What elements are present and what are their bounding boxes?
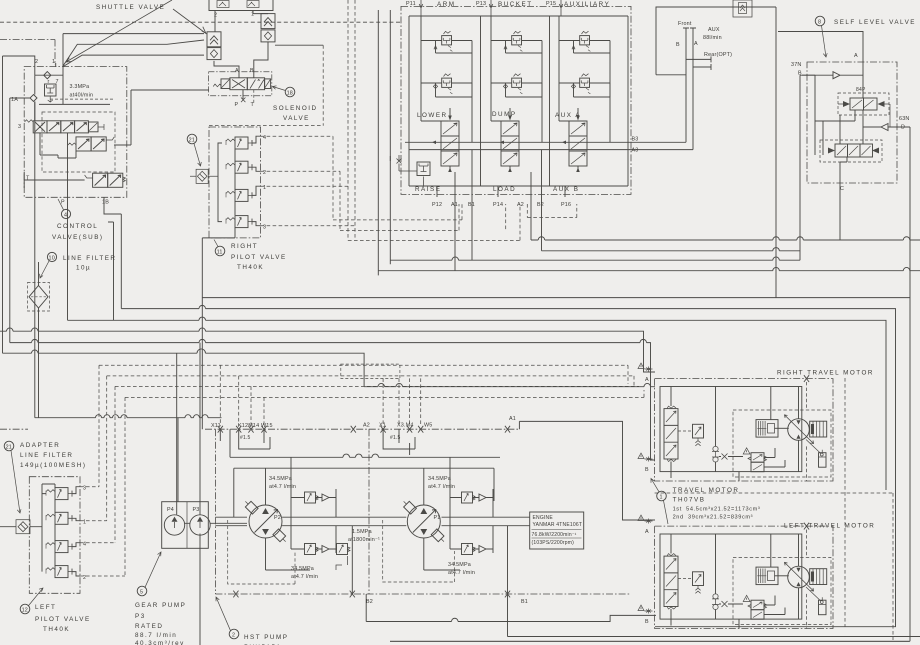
wire: bump on left feed (389, 156, 391, 161)
P2 case dashed outline (228, 520, 295, 584)
wire: supply to adapter (0, 526, 42, 528)
svg-text:B: B (250, 68, 254, 74)
svg-text:Front: Front (678, 21, 692, 27)
P15 supply stub (559, 0, 563, 16)
svg-text:RATED: RATED (135, 623, 163, 630)
svg-text:34.5MPa: 34.5MPa (448, 562, 471, 568)
svg-text:LINE FILTER: LINE FILTER (63, 255, 116, 262)
svg-text:63N: 63N (899, 116, 910, 122)
svg-text:X3.M4: X3.M4 (397, 423, 414, 429)
wire: gear pump outputs up (177, 343, 200, 645)
svg-text:X1: X1 (379, 423, 386, 429)
wire: C line down (840, 157, 847, 240)
svg-text:at4.7 l/min: at4.7 l/min (448, 570, 475, 576)
svg-text:2: 2 (214, 13, 217, 19)
wire: internal manifold (210, 143, 235, 238)
control valve(sub) enclosure (24, 67, 127, 198)
svg-text:P15: P15 (546, 1, 556, 7)
svg-text:76.8kW/2200min⁻¹: 76.8kW/2200min⁻¹ (532, 532, 577, 538)
wire: charge line with hops (230, 429, 500, 457)
wire: dash-dot stub top left (0, 40, 55, 66)
P1 lower check (450, 498, 493, 554)
wire: bus L1 (202, 297, 910, 299)
wire: T line (24, 172, 84, 188)
wire: port 4 line (252, 136, 261, 143)
wire: dashed under solenoid (209, 125, 323, 127)
wire: dashed rail 2 (340, 204, 506, 230)
wire: port 1 stub (55, 63, 57, 67)
wire: upper line to shuttle (63, 40, 204, 66)
AUX option box (656, 7, 776, 75)
wire: P down to bus (202, 238, 210, 429)
svg-text:P12: P12 (432, 202, 442, 208)
X mark A1 (505, 426, 510, 433)
wire: internal manifold (42, 484, 55, 572)
wire: vertical inside control valve (62, 34, 64, 105)
charge relief (337, 544, 351, 555)
wire: bottom dash-dot drain (215, 593, 630, 595)
circled 21 (187, 134, 201, 166)
wire: pilot rail 1 (99, 365, 628, 384)
wire: port3 line (252, 222, 261, 226)
wire: 1A vertical down (34, 75, 36, 121)
svg-text:VALVE(SUB): VALVE(SUB) (52, 234, 104, 241)
wire: top line to solenoid area (63, 33, 204, 35)
wire: solid manifold line (39, 103, 110, 105)
circled 12 (20, 588, 43, 614)
wire: valve interconnect (40, 133, 76, 158)
svg-text:2nd 39cm³x21.52=839cm³: 2nd 39cm³x21.52=839cm³ (673, 515, 754, 521)
svg-text:5: 5 (140, 589, 143, 595)
wire: B2 drop (351, 526, 353, 594)
wire: shuttle valve leader arrow (173, 9, 206, 34)
wire: B1 drain to right edge (508, 594, 920, 637)
circled 11 (214, 240, 225, 256)
circled 2 (216, 597, 239, 639)
svg-text:3: 3 (18, 124, 21, 130)
HST enclosure left edge (214, 429, 216, 594)
svg-text:LEFT: LEFT (35, 604, 56, 611)
svg-text:at4.7 l/min: at4.7 l/min (269, 484, 296, 490)
svg-text:37N: 37N (791, 62, 802, 68)
svg-text:at1800min⁻¹: at1800min⁻¹ (348, 537, 380, 543)
HST pump P2 (243, 499, 289, 545)
spool valve AUX (569, 108, 587, 172)
svg-text:LOAD: LOAD (493, 186, 516, 193)
circled 4 (58, 199, 71, 219)
svg-text:P1: P1 (434, 515, 441, 521)
reducing valve 2 (226, 161, 252, 173)
wire: B3 line through spools (405, 141, 686, 143)
P1 lower relief (462, 544, 476, 555)
wire: hooks under X group2 (383, 429, 415, 455)
svg-text:HST PUMP: HST PUMP (244, 634, 288, 641)
svg-text:4: 4 (64, 212, 67, 218)
svg-text:A: A (854, 53, 858, 59)
svg-text:r: r (48, 79, 50, 85)
HST pump P1 (401, 499, 447, 545)
wire: right inner vertical (889, 104, 891, 127)
svg-text:#1.5: #1.5 (240, 435, 251, 441)
svg-text:TRAVEL MOTOR: TRAVEL MOTOR (673, 487, 740, 494)
wire: P stub with x (242, 90, 244, 99)
wire: B2 feed down (541, 204, 543, 251)
svg-text:B2: B2 (366, 599, 373, 605)
P1 case dashed outline (383, 520, 455, 582)
wire: port 1 line (72, 518, 80, 520)
svg-text:A1: A1 (509, 416, 516, 422)
wire: diagonal from top edge (66, 0, 172, 62)
wire: P2 top riser (266, 468, 424, 505)
svg-text:AUX B: AUX B (553, 186, 579, 193)
wire: dashed pilot inside (50, 98, 115, 100)
pilot valve small mid (68, 137, 114, 151)
section divider 2 (549, 16, 551, 186)
bottom port stubs (437, 150, 565, 204)
wire: port 4 line (72, 543, 80, 547)
wire: left check to solenoid A (214, 61, 239, 78)
wire: pilot rail 2 (107, 376, 634, 386)
svg-text:1.5MPa: 1.5MPa (352, 529, 372, 535)
wire: bus B to SLV return (542, 248, 801, 251)
svg-text:LOWER: LOWER (417, 112, 448, 119)
svg-text:P: P (61, 200, 65, 206)
wire: D line with check (863, 124, 910, 131)
svg-text:10: 10 (49, 255, 55, 261)
wire: 1A line to left vertical (10, 97, 30, 99)
svg-text:B: B (645, 467, 649, 473)
svg-text:RIGHT: RIGHT (231, 243, 258, 250)
svg-text:ENGINE: ENGINE (533, 515, 554, 521)
svg-text:84P: 84P (856, 87, 866, 93)
svg-text:DUMP: DUMP (492, 111, 517, 118)
inner dashed box (42, 112, 115, 172)
P2 upper check (291, 489, 336, 517)
reducing valve 3 (46, 488, 72, 500)
svg-text:A2: A2 (363, 423, 370, 429)
diamond check right (261, 30, 275, 42)
wire: T stub (253, 90, 255, 103)
svg-text:TH07VB: TH07VB (673, 497, 706, 504)
upper spool valve (838, 93, 890, 115)
svg-text:D: D (901, 125, 905, 131)
svg-text:W5: W5 (424, 423, 433, 429)
spool valve ARM (441, 108, 459, 172)
wire: dashed port4 to valve block (261, 136, 333, 220)
svg-text:12: 12 (22, 607, 28, 613)
wire: dashed port2 (261, 171, 340, 230)
svg-text:A: A (235, 68, 239, 74)
svg-text:CONTROL: CONTROL (57, 223, 98, 230)
wire: gear pump shaft (185, 522, 247, 524)
port mark A left motor (638, 515, 653, 535)
wire: port1 line (252, 186, 261, 195)
line filter 10 (28, 283, 50, 312)
wire: bus L3 (68, 317, 887, 490)
svg-text:YANMAR 4TNE106T: YANMAR 4TNE106T (533, 522, 583, 528)
wire: drain column dashed (844, 378, 846, 627)
svg-text:10µ: 10µ (76, 265, 91, 272)
P11 supply stub (419, 0, 423, 16)
wire: bus C to SLV drop (390, 257, 800, 260)
wire: long bottom line (390, 640, 909, 642)
wire: A port (778, 32, 863, 99)
wire: port 2 line (252, 167, 261, 171)
reducing valve 2 (46, 566, 72, 578)
svg-text:A: A (645, 529, 649, 535)
wire: B vertical to bus (799, 75, 801, 260)
wire: B port line with check (800, 72, 863, 79)
svg-text:149µ(100MESH): 149µ(100MESH) (20, 462, 87, 469)
svg-text:TH40K: TH40K (43, 626, 70, 633)
wire: dashed rail 3 (348, 204, 520, 240)
wire: pump loop lower (215, 525, 406, 527)
svg-text:SHUTTLE VALVE: SHUTTLE VALVE (96, 4, 165, 11)
svg-text:B2: B2 (537, 202, 544, 208)
P1 upper check (450, 489, 493, 517)
spool valve BUCKET (501, 108, 519, 172)
svg-text:TH40K: TH40K (237, 264, 264, 271)
reducing valve 3 (226, 216, 252, 228)
svg-text:AUXILIARY: AUXILIARY (564, 1, 610, 8)
pressure reducing valve 7 (45, 84, 57, 102)
svg-text:34.5MPa: 34.5MPa (291, 566, 314, 572)
svg-text:SOLENOID: SOLENOID (273, 105, 318, 112)
svg-text:88l/min: 88l/min (703, 35, 722, 41)
right pilot valve enclosure (209, 127, 261, 238)
adapter diamond (16, 520, 30, 534)
svg-text:2: 2 (263, 170, 266, 176)
svg-text:A2: A2 (517, 202, 524, 208)
check diamond node (35, 67, 63, 79)
circled 21 adapter (4, 441, 21, 513)
port mark B left motor (638, 605, 653, 625)
circled 10 + LINE FILTER label (47, 252, 56, 261)
wire: bus L7 to travel motors (364, 383, 655, 386)
wire: pilot rail 3 (115, 385, 639, 387)
svg-text:7: 7 (56, 79, 59, 85)
wire: A1 line to left travel motor (519, 421, 655, 520)
svg-text:2: 2 (35, 59, 38, 65)
wire: dashed rail 1 (333, 204, 462, 220)
valve block inner frame (409, 16, 628, 186)
svg-text:PILOT VALVE: PILOT VALVE (35, 616, 91, 623)
lower pilot valve T (26, 173, 125, 187)
wire: left vertical 2 to bus L5 (9, 98, 11, 343)
wire: bus A to right edge (531, 237, 920, 240)
wire: charge header (234, 468, 494, 517)
wire: P2 bottom (266, 538, 461, 570)
svg-text:T: T (26, 176, 30, 182)
P1 upper relief (462, 492, 476, 503)
svg-text:1: 1 (660, 494, 663, 500)
main control spool valve 3 (18, 120, 104, 133)
P13 supply stub (489, 0, 493, 16)
reducing valve 4 (46, 541, 72, 553)
wire: bus L5 (10, 339, 655, 460)
X marks group 2 (351, 426, 356, 433)
circled 18 (273, 86, 295, 97)
wire: B line (683, 28, 689, 142)
gear pump P3 (190, 515, 210, 535)
svg-text:A: A (694, 41, 698, 47)
wire: bus L6 (3, 349, 365, 387)
wire: hooks under X group1 (220, 429, 270, 449)
check valve right (261, 14, 275, 29)
svg-text:GEAR PUMP: GEAR PUMP (135, 602, 186, 609)
wire: bus L4 (0, 328, 655, 372)
circled 1 (651, 479, 668, 525)
svg-text:1B: 1B (102, 200, 109, 206)
wire: X1 X3 drops (383, 378, 421, 426)
wire: port 2 line (72, 572, 80, 576)
svg-text:34.5MPa: 34.5MPa (428, 476, 451, 482)
svg-text:P3: P3 (135, 613, 146, 620)
wire: right check to solenoid B (254, 42, 268, 78)
wire: left vertical to bus L6 (2, 56, 4, 353)
gear pump P4 (164, 515, 184, 535)
svg-text:34.5MPa: 34.5MPa (269, 476, 292, 482)
wire: 1B vertical to bus L2 (120, 214, 122, 309)
reducing valve 4 (226, 137, 252, 149)
svg-text:B: B (645, 619, 649, 625)
wire: A3 line through spools (409, 149, 693, 151)
wire: dashed port connections (80, 487, 125, 576)
reducing valve 1 (226, 189, 252, 201)
svg-text:B1: B1 (468, 202, 475, 208)
svg-text:A: A (645, 377, 649, 383)
svg-text:11: 11 (217, 249, 223, 255)
wire: A1 feed down (454, 204, 456, 271)
wire: right check branch (275, 44, 323, 46)
wire: bus D to right edge (378, 267, 920, 270)
wire: P port down to bus L3 (67, 133, 69, 320)
wire: bottom return line (366, 594, 656, 622)
svg-text:VALVE: VALVE (283, 115, 310, 122)
svg-text:T: T (251, 102, 255, 108)
svg-text:B1: B1 (521, 599, 528, 605)
svg-text:SELF LEVEL VALVE: SELF LEVEL VALVE (834, 19, 916, 26)
svg-text:RIGHT TRAVEL MOTOR: RIGHT TRAVEL MOTOR (777, 370, 874, 377)
svg-text:P2: P2 (274, 515, 281, 521)
wire: pump loop upper (215, 516, 406, 518)
wire: dashed branch down (322, 45, 324, 125)
P2 lower check (291, 498, 336, 554)
X marks group 1 (218, 426, 223, 433)
wire: port2 shuttle to check (214, 11, 216, 32)
left travel motor (655, 523, 833, 629)
svg-text:P3: P3 (193, 507, 200, 513)
AUX section internals (559, 16, 610, 142)
wire: P1 to engine shaft (442, 517, 530, 526)
wire: A2 feed down (530, 204, 532, 240)
svg-text:P11: P11 (406, 1, 416, 7)
svg-text:P4: P4 (167, 507, 174, 513)
svg-text:Rear(OPT): Rear(OPT) (704, 52, 732, 58)
svg-text:2: 2 (232, 632, 235, 638)
wire: pilot drops to HST X-ports (220, 365, 264, 426)
wire: AUX drop to L1 (775, 7, 777, 298)
svg-text:21: 21 (6, 444, 12, 450)
svg-text:B3: B3 (632, 137, 639, 143)
wire: suction down to gear pump (177, 418, 179, 502)
svg-text:P14: P14 (493, 202, 503, 208)
wire: A line (690, 28, 696, 150)
wire: port 2 to left edge (3, 56, 35, 67)
circled 5 (137, 552, 161, 596)
svg-text:ADAPTER: ADAPTER (20, 442, 60, 449)
svg-text:at4.7 l/min: at4.7 l/min (291, 574, 318, 580)
svg-text:BUCKET: BUCKET (498, 1, 533, 8)
svg-text:P: P (235, 102, 239, 108)
engine box (530, 512, 584, 549)
wire: long dashed pilot line top edge (0, 21, 400, 23)
svg-text:40.3cm³/rev: 40.3cm³/rev (135, 640, 185, 645)
svg-text:ARM: ARM (437, 1, 456, 8)
port mark B right motor (638, 453, 653, 473)
gear pump box (162, 502, 209, 549)
wire: drain line with X ports (0, 428, 519, 430)
wire: port1 shuttle to check (253, 11, 268, 14)
wire: B1 feed down (471, 204, 473, 260)
check valve left (207, 32, 221, 47)
dashed box pump1 ports (341, 364, 400, 378)
svg-text:1st 54.5cm³x21.52=1173cm³: 1st 54.5cm³x21.52=1173cm³ (673, 507, 761, 513)
svg-text:at4.7 l/min: at4.7 l/min (428, 484, 455, 490)
wire: case drain divider (368, 429, 370, 594)
wire: dashed port1 (261, 0, 348, 240)
wire: T drain down to tank line (34, 102, 36, 418)
wire: pilot rail 4 (125, 390, 644, 397)
solenoid valve 18 (208, 72, 271, 96)
svg-text:1: 1 (52, 59, 55, 65)
P2 upper relief (305, 492, 319, 503)
svg-text:P16: P16 (561, 202, 571, 208)
wire: spool1 to spool2 (815, 110, 863, 155)
wire: B1 drop (507, 526, 509, 594)
svg-text:3.3MPa: 3.3MPa (70, 84, 90, 90)
lower spool valve (820, 140, 882, 162)
flow arrows on B3 line (432, 141, 566, 145)
self level valve enclosure (807, 62, 897, 183)
right travel motor (655, 375, 833, 481)
X mark B2 (233, 591, 238, 598)
circled 8 (815, 16, 827, 57)
svg-text:21: 21 (189, 137, 195, 143)
wire: tank suction line with hops (35, 417, 222, 419)
wire: dashed rail 4 P16 (527, 204, 577, 218)
check valve on top (733, 0, 752, 17)
svg-text:(103PS/2200rpm): (103PS/2200rpm) (532, 540, 575, 546)
diamond check left (207, 48, 221, 60)
wire: filter down to tank line (38, 308, 40, 418)
wire: inter-motor dashed drain (655, 493, 893, 640)
wire: 1B port down (104, 198, 121, 215)
svg-text:PILOT VALVE: PILOT VALVE (231, 254, 287, 261)
svg-text:C: C (840, 186, 844, 192)
wire: solenoid link down (114, 90, 209, 145)
reducing valve 1 (46, 512, 72, 524)
shuttle valve block (209, 0, 273, 11)
wire: valve block left feeds (378, 10, 390, 275)
BUCKET section internals (491, 16, 542, 142)
inner solid box (802, 75, 855, 121)
wire: dashed port3 (261, 0, 355, 240)
svg-text:A1: A1 (451, 202, 458, 208)
adapter 21 diamond (190, 169, 218, 183)
svg-text:88.7 l/min: 88.7 l/min (135, 632, 177, 639)
section divider 1 (480, 16, 482, 186)
